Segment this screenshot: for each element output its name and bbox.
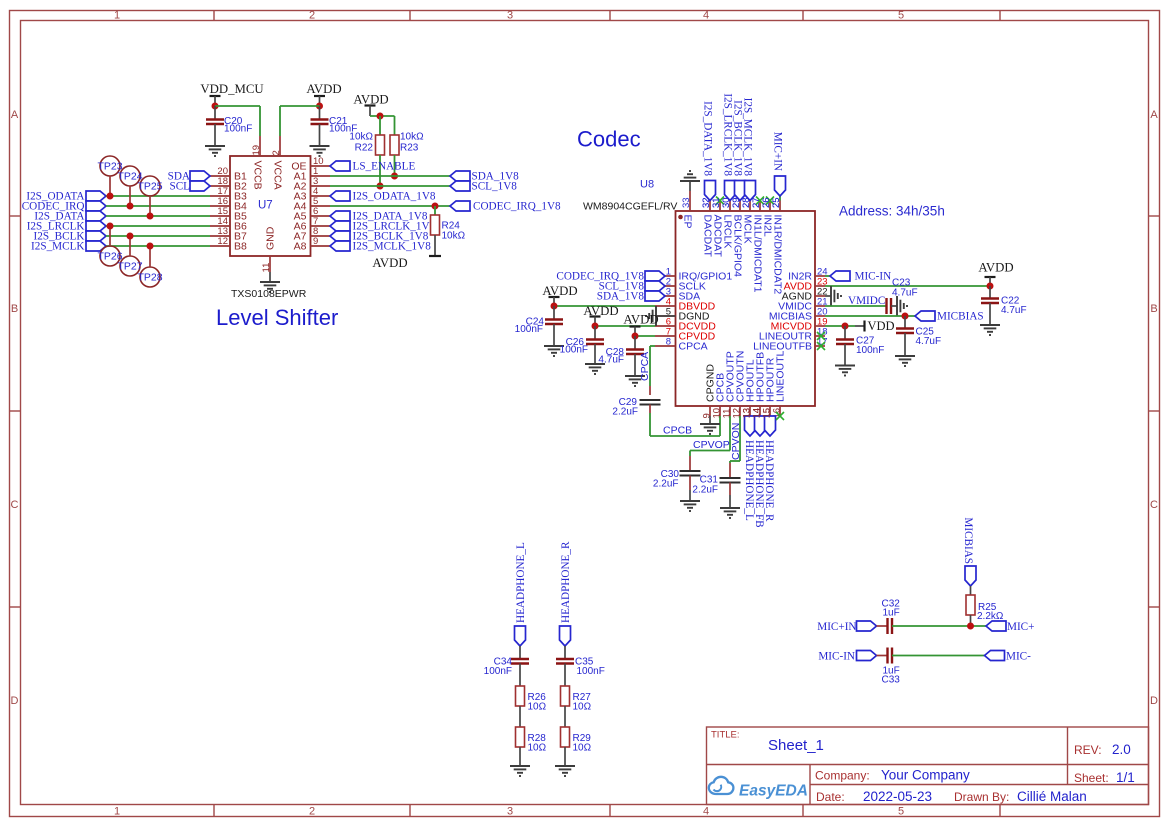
U7 pin 13 B7: [210, 226, 247, 243]
svg-text:100nF: 100nF: [560, 345, 588, 356]
svg-text:Cillié Malan: Cillié Malan: [1017, 789, 1087, 804]
junction R23 to SDA_1V8: [391, 173, 398, 180]
U8 pin 10 CPCB: [712, 373, 727, 419]
svg-text:12: 12: [217, 236, 228, 247]
U8 pin 5 DGND: [655, 307, 710, 323]
wire MICBIAS: [825, 315, 915, 317]
svg-text:TP25: TP25: [137, 181, 162, 193]
net flag I2S_DATA_1V8 (codec top): [702, 101, 716, 200]
net flag HEADPHONE_L (codec): [743, 416, 756, 521]
svg-text:2.2uF: 2.2uF: [653, 479, 679, 490]
power flag AVDD at CPVDD: [623, 313, 658, 337]
svg-text:MIC+IN: MIC+IN: [817, 621, 856, 633]
svg-text:B8: B8: [234, 241, 247, 253]
svg-text:SDA_1V8: SDA_1V8: [597, 291, 645, 303]
IC U8 WM8904CGEFL/RV codec: [583, 179, 815, 407]
svg-text:100nF: 100nF: [484, 666, 512, 677]
svg-text:MICBIAS: MICBIAS: [962, 517, 974, 564]
junction CPVDD: [632, 333, 639, 340]
wire CPCB: [650, 405, 720, 437]
ground at DGND (sideways left): [646, 306, 656, 326]
svg-text:MICBIAS: MICBIAS: [937, 311, 984, 323]
net flag HEADPHONE_L (filter): [515, 542, 527, 646]
no-connect pin 17: [817, 342, 825, 350]
svg-text:IN1R/DMICDAT2: IN1R/DMICDAT2: [772, 215, 784, 295]
power flag AVDD at DCVDD: [583, 304, 618, 326]
svg-text:10Ω: 10Ω: [573, 743, 592, 754]
svg-text:2: 2: [271, 150, 282, 155]
U8 pin 27 IN1L/DMICDAT1: [751, 197, 764, 292]
svg-text:10Ω: 10Ω: [528, 702, 547, 713]
svg-text:2.0: 2.0: [1112, 742, 1131, 757]
U7 pin 18 B2: [210, 176, 247, 193]
svg-text:I2S_MCLK_1V8: I2S_MCLK_1V8: [742, 98, 754, 177]
ground at C24: [544, 346, 564, 356]
capacitor C25 4.7uF: [896, 316, 941, 356]
svg-text:10kΩ: 10kΩ: [442, 231, 466, 242]
net flag I2S_DATA_1V8: [330, 211, 428, 223]
svg-text:EasyEDA: EasyEDA: [739, 783, 808, 800]
capacitor C29 2.2uF: [612, 397, 660, 418]
test point TP24: [117, 166, 142, 206]
test point TP26: [97, 226, 122, 266]
svg-text:CPVOP: CPVOP: [693, 439, 730, 451]
U8 pin 18 LINEOUTR: [759, 327, 828, 343]
junction MICBIAS: [902, 313, 909, 320]
capacitor C24 100nF: [515, 306, 563, 346]
junction AVDD node: [316, 103, 323, 110]
wire AGND: [825, 295, 831, 297]
junction pullup rail: [377, 113, 384, 120]
svg-text:100nF: 100nF: [577, 666, 605, 677]
svg-text:Codec: Codec: [577, 127, 641, 152]
svg-text:CPCB: CPCB: [663, 425, 692, 437]
wire A2 to SCL_1V8: [330, 185, 450, 187]
U8 pin 14 HPOUTFB: [752, 352, 767, 419]
svg-text:2.2uF: 2.2uF: [692, 485, 718, 496]
svg-text:Company:: Company:: [815, 769, 870, 783]
ground at AGND (sideways right): [831, 286, 841, 306]
svg-text:2: 2: [309, 806, 315, 818]
U7 pin 20 B1: [210, 166, 247, 183]
U7 pin 17 B3: [210, 186, 247, 203]
U8 pin 20 MICBIAS: [769, 307, 828, 323]
svg-text:25: 25: [771, 197, 782, 208]
test point TP28: [137, 246, 162, 287]
svg-text:SCL_1V8: SCL_1V8: [472, 181, 518, 193]
ground at R29: [555, 766, 575, 776]
U7 pin 16 B4: [210, 196, 247, 213]
net flag CODEC_IRQ: [22, 201, 106, 213]
wire CPVOP: [690, 416, 730, 456]
svg-text:3: 3: [507, 806, 513, 818]
power bar AVDD at R24: [372, 256, 441, 270]
wire VMIDC: [825, 295, 887, 307]
IC U7 TXS0108EPWR level shifter: [230, 156, 311, 256]
svg-text:15: 15: [762, 408, 773, 419]
junction DCVDD: [592, 323, 599, 330]
U7 pin 1 A1: [294, 166, 330, 183]
ground at C27: [835, 366, 855, 376]
svg-text:10kΩ: 10kΩ: [400, 132, 424, 143]
svg-text:MIC-IN: MIC-IN: [818, 651, 855, 663]
U7 pin 5 A4: [294, 196, 330, 213]
wire CPVDD rail: [635, 335, 655, 337]
wire DCVDD rail: [595, 325, 655, 327]
net flag I2S_LRCLK_1V8 (codec top): [722, 93, 736, 200]
svg-text:HEADPHONE_L: HEADPHONE_L: [515, 542, 527, 623]
wire DGND: [656, 315, 676, 317]
net flag I2S_LRCLK_1V8: [330, 221, 436, 233]
test point TP25: [137, 176, 162, 216]
svg-text:Address: 34h/35h: Address: 34h/35h: [839, 204, 945, 219]
U8 pin 26 IN2L: [761, 197, 774, 236]
U7 pin 12 B8: [210, 236, 247, 253]
svg-text:Sheet:: Sheet:: [1074, 771, 1109, 785]
U8 pin 3 SDA: [655, 287, 700, 303]
ground at C31: [720, 508, 740, 518]
net flag I2S_LRCLK: [27, 221, 106, 233]
wire U7 GND to ground: [269, 272, 271, 282]
capacitor C23 4.7uF (series): [887, 278, 918, 315]
wire I2S_BCLK to U7: [106, 235, 210, 237]
capacitor C26 100nF: [560, 326, 604, 364]
U8 pin 29 BCLK/GPIO4: [731, 197, 744, 277]
svg-text:100nF: 100nF: [224, 124, 252, 135]
wire AVDD to U7 VCCA: [280, 106, 320, 136]
svg-text:REV:: REV:: [1074, 743, 1102, 757]
U8 pin 2 SCLK: [655, 277, 706, 293]
capacitor C27 100nF: [836, 326, 884, 366]
resistor R23 10k: [390, 116, 424, 176]
svg-text:WM8904CGEFL/RV: WM8904CGEFL/RV: [583, 201, 677, 213]
svg-text:TXS0108EPWR: TXS0108EPWR: [231, 288, 307, 300]
EasyEDA logo: [709, 777, 808, 800]
svg-text:U8: U8: [640, 179, 654, 191]
net flag I2S_ODATA: [26, 191, 106, 203]
svg-text:100nF: 100nF: [856, 345, 884, 356]
svg-text:I2S_DATA_1V8: I2S_DATA_1V8: [702, 101, 714, 176]
power flag VDD_MCU: [200, 82, 263, 106]
svg-text:CPCA: CPCA: [679, 341, 708, 353]
junction TP24: [127, 203, 134, 210]
svg-text:I2S_MCLK: I2S_MCLK: [31, 241, 84, 253]
svg-text:C: C: [11, 499, 19, 511]
net flag I2S_ODATA_1V8: [330, 191, 436, 203]
svg-text:8: 8: [666, 337, 671, 348]
svg-text:2022-05-23: 2022-05-23: [863, 789, 932, 804]
U7 pin 2 VCCA: [271, 136, 284, 190]
resistor R28 10R: [516, 727, 547, 766]
svg-text:Drawn By:: Drawn By:: [954, 790, 1009, 804]
net flag I2S_BCLK: [34, 231, 106, 243]
no-connect pin 16: [776, 412, 784, 420]
U7 pin 3 A2: [294, 176, 330, 193]
net flag SDA: [168, 171, 210, 183]
wire C32 to MIC+: [892, 625, 986, 627]
test point TP27: [117, 236, 142, 276]
wire I2S_DATA to U7: [106, 215, 210, 217]
svg-text:CPVON: CPVON: [730, 423, 742, 460]
net flag I2S_MCLK_1V8 (codec top): [742, 98, 756, 201]
svg-text:R22: R22: [355, 143, 374, 154]
junction TP28: [147, 243, 154, 250]
capacitor C35 100nF: [556, 646, 605, 686]
U7 pin 4 A3: [294, 186, 330, 203]
svg-text:4.7uF: 4.7uF: [598, 355, 624, 366]
svg-text:C33: C33: [882, 675, 901, 686]
capacitor C30 2.2uF: [653, 456, 701, 501]
no-connect pin 27: [756, 197, 764, 205]
U7 pin 7 A6: [294, 216, 330, 233]
resistor R24 10k pulldown: [431, 206, 466, 256]
capacitor C21 100nF: [311, 106, 358, 146]
junction MICVDD: [842, 323, 849, 330]
net flag I2S_MCLK: [31, 241, 106, 253]
junction TP23: [107, 193, 114, 200]
svg-text:MIC-IN: MIC-IN: [855, 271, 892, 283]
svg-text:VDD_MCU: VDD_MCU: [200, 82, 263, 96]
net flag SDA_1V8 (codec): [597, 291, 665, 303]
power flag AVDD right: [978, 261, 1013, 287]
ground after C23 (sideways right): [897, 296, 907, 316]
ground at CPGND pin 9: [700, 416, 720, 434]
wire I2S_MCLK to U7: [106, 245, 210, 247]
title block texts: [711, 730, 1135, 805]
svg-text:U7: U7: [258, 200, 273, 212]
resistor R26 10R: [516, 686, 547, 727]
svg-text:B: B: [11, 303, 18, 315]
title block: [707, 727, 1149, 805]
svg-text:AVDD: AVDD: [583, 304, 618, 318]
U8 pin 24 IN2R: [788, 267, 828, 283]
net flag SCL_1V8: [450, 181, 517, 193]
net flag HEADPHONE_R (filter): [560, 541, 572, 646]
wire VDD_MCU to U7 VCCB: [215, 106, 260, 136]
junction TP25: [147, 213, 154, 220]
test point TP23: [97, 156, 122, 196]
svg-text:1uF: 1uF: [883, 608, 900, 619]
U8 pin 23 AVDD: [784, 277, 828, 293]
net flag MIC+: [986, 621, 1034, 633]
svg-text:MIC-: MIC-: [1006, 651, 1031, 663]
U8 pin 8 CPCA: [655, 337, 708, 353]
wire AVDD pin23: [825, 285, 990, 287]
svg-text:Date:: Date:: [816, 790, 845, 804]
U8 pin 12 CPVOUTN: [732, 351, 747, 419]
svg-text:4.7uF: 4.7uF: [892, 288, 918, 299]
svg-text:R23: R23: [400, 143, 419, 154]
svg-text:C: C: [1150, 499, 1158, 511]
U8 pin 16 LINEOUTL: [772, 350, 787, 418]
svg-text:VMIDC: VMIDC: [848, 295, 885, 307]
svg-text:AVDD: AVDD: [372, 256, 407, 270]
net flag SCL_1V8 (codec): [599, 281, 665, 293]
U7 pin 15 B5: [210, 206, 247, 223]
svg-text:VCCB: VCCB: [252, 161, 264, 190]
net flag HEADPHONE_FB (codec): [753, 416, 766, 528]
svg-text:4: 4: [703, 806, 709, 818]
svg-text:Your Company: Your Company: [881, 768, 970, 783]
net flag SCL: [169, 181, 210, 193]
junction TP26: [107, 223, 114, 230]
svg-text:4.7uF: 4.7uF: [1001, 305, 1027, 316]
svg-text:B: B: [1150, 303, 1157, 315]
resistor R25 2.2k: [966, 586, 1004, 626]
ground at C25: [895, 356, 915, 366]
net flag HEADPHONE_R (codec): [763, 416, 776, 522]
svg-text:Sheet_1: Sheet_1: [768, 737, 824, 754]
U8 pin 4 DBVDD: [655, 297, 716, 313]
junction VDD_MCU node: [212, 103, 219, 110]
U8 pin 25 IN1R/DMICDAT2: [771, 197, 784, 294]
svg-text:VCCA: VCCA: [272, 161, 284, 190]
net flag MIC+IN (mic input): [817, 621, 876, 633]
U8 pin 31 ADCDAT: [711, 197, 724, 257]
svg-text:10kΩ: 10kΩ: [349, 132, 373, 143]
wire CPVON: [730, 416, 742, 463]
svg-text:A: A: [11, 109, 19, 121]
svg-text:TP28: TP28: [137, 272, 162, 284]
net flag I2S_BCLK_1V8: [330, 231, 429, 243]
ground at C28: [625, 376, 645, 386]
svg-text:4: 4: [703, 10, 709, 22]
ground at C30: [680, 501, 700, 511]
svg-text:HEADPHONE_R: HEADPHONE_R: [763, 440, 775, 522]
net flag MICBIAS (mic bias): [962, 517, 976, 586]
net flag LS_ENABLE: [330, 161, 415, 173]
U8 pin 9 CPGND: [702, 364, 717, 419]
svg-text:AVDD: AVDD: [542, 284, 577, 298]
svg-text:A: A: [1150, 109, 1158, 121]
resistor R22 10k: [349, 116, 384, 186]
svg-text:Level Shifter: Level Shifter: [216, 305, 338, 330]
svg-text:33: 33: [681, 197, 692, 208]
svg-text:MIC+: MIC+: [1007, 621, 1034, 633]
svg-text:CPCA: CPCA: [639, 352, 651, 381]
U7 pin 9 A8: [294, 236, 330, 253]
net flag CODEC_IRQ_1V8: [450, 201, 561, 213]
U7 pin 6 A5: [294, 206, 330, 223]
svg-text:19: 19: [251, 145, 262, 156]
capacitor C33 1uF (series): [877, 648, 901, 686]
junction R25/MIC+: [967, 623, 974, 630]
svg-text:LINEOUTL: LINEOUTL: [775, 350, 787, 402]
capacitor C34 100nF: [484, 646, 529, 686]
wire DBVDD rail: [554, 305, 655, 307]
capacitor C22 4.7uF: [981, 286, 1027, 325]
junction DBVDD: [551, 303, 558, 310]
wire CPCA: [639, 346, 655, 395]
wire C33 to MIC-: [892, 655, 985, 657]
net flag I2S_BCLK_1V8 (codec top): [732, 100, 746, 200]
U8 pin 30 LRCLK: [721, 197, 734, 248]
wire A1 to SDA_1V8: [330, 175, 450, 177]
net flag MIC+IN (codec pin 25): [772, 132, 786, 201]
svg-text:11: 11: [261, 263, 272, 273]
svg-text:4.7uF: 4.7uF: [916, 336, 942, 347]
capacitor C28 4.7uF: [598, 336, 644, 376]
power flag AVDD (pullups): [353, 93, 388, 117]
U8 pin 13 HPOUTL: [742, 359, 757, 418]
no-connect pin 18: [817, 332, 825, 340]
junction R22 to SCL_1V8: [377, 183, 384, 190]
U8 pin 19 MICVDD: [771, 317, 828, 333]
svg-text:2: 2: [309, 10, 315, 22]
U8 pin 32 DACDAT: [701, 197, 714, 257]
svg-text:5: 5: [898, 10, 904, 22]
svg-text:10Ω: 10Ω: [573, 702, 592, 713]
ground at C21: [310, 146, 330, 156]
net flag I2S_DATA: [34, 211, 106, 223]
svg-text:1: 1: [114, 806, 120, 818]
svg-text:MIC+IN: MIC+IN: [772, 132, 784, 171]
ground at C22: [980, 325, 1000, 335]
U8 pin 33 EP: [681, 191, 694, 229]
svg-text:5: 5: [898, 806, 904, 818]
net flag SDA_1V8: [450, 171, 519, 183]
ground at U7 pin 11: [260, 282, 280, 292]
svg-text:A8: A8: [294, 241, 307, 253]
svg-text:AVDD: AVDD: [978, 261, 1013, 275]
svg-text:D: D: [1150, 695, 1158, 707]
svg-text:HEADPHONE_R: HEADPHONE_R: [560, 541, 572, 623]
svg-text:SCL: SCL: [169, 181, 190, 193]
svg-text:VDD: VDD: [868, 319, 895, 333]
ground at C20: [205, 146, 225, 156]
U8 pin 11 CPVOUTP: [722, 351, 737, 418]
svg-text:AVDD: AVDD: [306, 82, 341, 96]
svg-text:2.2uF: 2.2uF: [612, 407, 638, 418]
net flag MICBIAS (codec): [915, 311, 984, 323]
svg-text:100nF: 100nF: [515, 324, 543, 335]
U7 pin 11 GND: [261, 226, 277, 272]
U7 pin 14 B6: [210, 216, 247, 233]
svg-text:1/1: 1/1: [1116, 770, 1135, 785]
wire CODEC_IRQ to U7: [106, 205, 210, 207]
resistor R29 10R: [561, 727, 592, 766]
net flag MIC-IN (mic input): [818, 651, 876, 663]
svg-text:I2S_MCLK_1V8: I2S_MCLK_1V8: [353, 241, 432, 253]
wire A4 to CODEC_IRQ_1V8: [330, 205, 450, 207]
wire MICVDD: [825, 325, 855, 327]
junction TP27: [127, 233, 134, 240]
U8 pin 6 DCVDD: [655, 317, 716, 333]
U8 pin 28 MCLK: [741, 197, 754, 243]
svg-text:CODEC_IRQ_1V8: CODEC_IRQ_1V8: [473, 201, 561, 213]
capacitor C32 1uF (series): [877, 599, 901, 635]
resistor R27 10R: [561, 686, 592, 727]
capacitor C31 2.2uF: [692, 463, 740, 508]
junction R24 top: [432, 203, 439, 210]
svg-text:1: 1: [114, 10, 120, 22]
net flag MIC-: [985, 651, 1032, 663]
no-connect pin 26: [766, 197, 774, 205]
wire I2S_LRCLK to U7: [106, 225, 210, 227]
svg-text:AVDD: AVDD: [623, 313, 658, 327]
svg-text:3: 3: [507, 10, 513, 22]
ground at R28: [510, 766, 530, 776]
svg-text:GND: GND: [265, 226, 277, 250]
capacitor C20 100nF: [206, 106, 252, 146]
U8 pin 22 AGND: [782, 287, 828, 303]
power flag AVDD at DBVDD: [542, 284, 577, 306]
ground at EP pin 33 (inverted): [680, 171, 700, 191]
power flag AVDD (U7 VCCA): [306, 82, 341, 106]
svg-text:9: 9: [313, 236, 318, 247]
U8 pin 17 LINEOUTFB: [753, 337, 828, 353]
svg-text:D: D: [11, 695, 19, 707]
